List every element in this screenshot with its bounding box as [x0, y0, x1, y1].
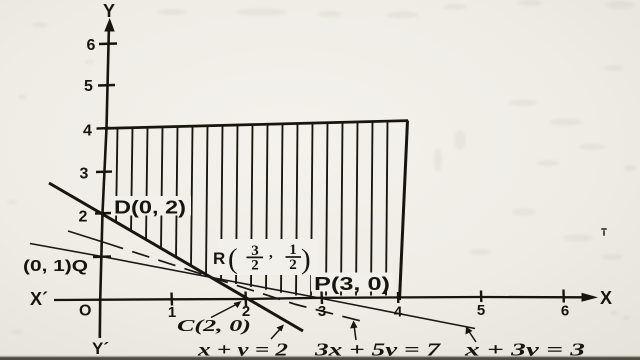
y-axis: [100, 24, 109, 338]
point R label: R(3/2, 1/2): [213, 242, 311, 276]
tick x=3: [320, 291, 323, 305]
line 3x+5y=7 dashed part: [106, 243, 364, 322]
region top boundary y=4: [105, 121, 409, 129]
svg-text:P(3, 0): P(3, 0): [314, 274, 390, 294]
svg-text:(0, 1)Q: (0, 1)Q: [23, 258, 88, 275]
svg-text:5: 5: [477, 302, 485, 319]
tick x=2: [244, 292, 247, 307]
arrow from 3x+5y=7 label: [354, 325, 356, 340]
tick y=4: [97, 127, 111, 130]
svg-text:2: 2: [251, 258, 259, 274]
whiteout behind D label: [111, 196, 191, 216]
tick x=5: [480, 291, 483, 303]
arrow to C point: [211, 304, 238, 318]
svg-text:4: 4: [83, 123, 92, 140]
line x+3y=3: [30, 244, 475, 329]
y-axis arrowhead: [104, 18, 114, 32]
region right boundary x=4: [400, 121, 408, 300]
svg-text:2: 2: [289, 257, 297, 273]
svg-text:6: 6: [561, 303, 569, 320]
small dark stray mark right side: [601, 228, 607, 236]
svg-text:3: 3: [80, 166, 89, 183]
svg-text:Y´: Y´: [92, 339, 109, 358]
svg-text:,: ,: [269, 245, 273, 261]
svg-text:1: 1: [289, 242, 297, 258]
svg-text:D(0, 2): D(0, 2): [114, 198, 186, 218]
tick y=3: [96, 170, 112, 173]
svg-text:R: R: [213, 249, 225, 268]
tick y=2: [95, 212, 111, 215]
svg-text:1: 1: [168, 304, 176, 321]
svg-text:O: O: [79, 303, 91, 320]
bottom scan edge: [0, 356, 640, 358]
svg-text:X´: X´: [30, 289, 48, 309]
svg-text:3: 3: [318, 303, 326, 320]
line x+y=2: [49, 183, 303, 331]
whiteout behind P label: [311, 273, 394, 292]
svg-text:C(2, 0): C(2, 0): [177, 316, 251, 335]
arrow from x+3y=3 label: [468, 330, 476, 342]
whiteout behind R label: [217, 239, 318, 275]
hatching of feasible region: [116, 121, 388, 296]
tick x=4: [397, 292, 400, 303]
tick y=5: [98, 84, 115, 87]
x-axis arrowhead: [582, 293, 599, 302]
svg-text:2: 2: [79, 209, 88, 226]
x-axis: [54, 297, 582, 300]
svg-text:Y: Y: [103, 1, 115, 21]
svg-text:5: 5: [84, 78, 93, 95]
tick y=1: [93, 255, 111, 258]
tick y=6: [99, 42, 117, 45]
svg-text:4: 4: [394, 304, 403, 321]
svg-text:6: 6: [87, 37, 96, 54]
tick x=1: [170, 293, 173, 306]
tick x=6: [562, 290, 565, 303]
svg-text:X: X: [600, 288, 612, 308]
svg-text:(: (: [228, 243, 238, 275]
line 3x+5y=7 solid left part: [68, 231, 106, 243]
svg-text:): ): [301, 244, 311, 276]
arrow from x+y=2 label: [271, 328, 281, 339]
